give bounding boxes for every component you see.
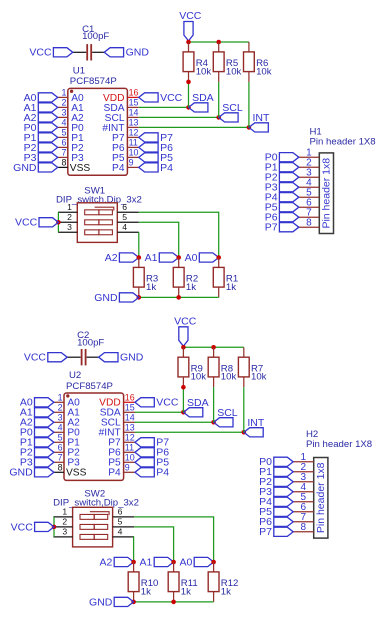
label SDA [183,397,208,417]
wire SDA net [139,106,189,108]
svg-text:15: 15 [129,98,139,108]
label P2 [20,447,54,459]
svg-text:10k: 10k [226,66,242,77]
switch SW2 DIP_switch,Dip_3x2 body [53,488,139,547]
pin 2 [58,212,77,222]
wire SCL net [135,421,214,423]
svg-text:2: 2 [62,517,67,527]
svg-text:7: 7 [58,453,63,463]
pin 15 (SDA) [104,98,139,114]
svg-text:13: 13 [125,423,135,433]
wire switch common [57,212,59,232]
pin 3 (A2) [54,413,80,429]
svg-text:VCC: VCC [179,10,202,22]
pin 10 (P5) [112,148,139,164]
label P4 [135,467,169,479]
wire INT net [139,126,249,128]
svg-text:10k: 10k [196,66,212,77]
svg-text:U2: U2 [69,370,81,381]
label A0 [185,252,219,264]
label SCL [219,102,243,122]
junction SDA [186,105,191,110]
svg-text:A2: A2 [100,556,113,568]
resistor R12 [208,562,238,602]
label P4 [139,162,173,174]
pin 7 (P3) [58,148,84,164]
pin 6 (P2) [54,443,80,459]
svg-text:10k: 10k [221,372,237,383]
svg-text:10k: 10k [191,372,207,383]
svg-text:1k: 1k [221,586,231,597]
label P6 [139,142,173,154]
pin 11 (P6) [112,138,139,154]
switch SW1 DIP_switch,Dip_3x2 body [56,185,142,242]
wire SCL net [139,116,219,118]
junction below first pullup [181,385,186,390]
wire GND rail [134,601,214,603]
svg-text:12: 12 [125,433,135,443]
svg-text:8: 8 [61,158,66,168]
label GND [99,352,144,364]
svg-text:VCC: VCC [15,217,38,229]
pin 1 [293,452,314,463]
junction switch VCC [56,220,61,225]
label VCC [139,92,183,104]
pin 16 (VDD) [99,393,135,409]
pin 1 [53,507,72,517]
label P0 [259,456,293,468]
pin 1 (A0) [54,393,80,409]
label P5 [265,202,299,214]
wire GND rail [139,296,219,298]
junction SCL [211,420,216,425]
label P3 [265,182,299,194]
svg-text:11: 11 [125,443,134,453]
label SCL [214,407,238,427]
svg-text:P4: P4 [156,467,169,479]
svg-text:VCC: VCC [24,352,47,364]
label VCC [11,521,54,533]
label P1 [20,437,54,449]
svg-text:5: 5 [118,517,123,527]
connector H2 pin header 1x8 body [306,429,372,538]
resistor R2 [173,258,198,298]
capacitor C1 [73,24,110,61]
label P6 [265,212,299,224]
resistor R9 [178,347,206,387]
junction VCC rail at R2 [216,40,221,45]
svg-text:16: 16 [125,393,135,403]
svg-text:VCC: VCC [156,397,179,409]
pin 13 (#INT) [99,423,135,439]
svg-text:4: 4 [61,118,66,128]
pin 3 [293,472,314,483]
junction A2 [137,255,142,260]
wire switch common [53,517,55,537]
label P1 [265,162,299,174]
svg-text:100pF: 100pF [77,338,104,349]
svg-text:3: 3 [62,527,67,537]
wire VCC rail [183,346,243,348]
label P7 [135,437,169,449]
svg-text:10: 10 [129,148,139,158]
svg-text:8: 8 [301,522,307,533]
svg-text:7: 7 [61,148,66,158]
label GND [104,47,149,59]
label VCC [29,47,72,59]
svg-text:U1: U1 [73,66,85,77]
wire INT net [135,431,244,433]
svg-text:5: 5 [122,212,127,222]
connector H1 pin header 1x8 body [310,126,376,233]
junction SDA [181,410,186,415]
pin 7 [293,512,314,523]
svg-text:P7: P7 [259,526,272,538]
label A0 [20,397,54,409]
pin 1 [58,202,77,212]
svg-text:15: 15 [125,403,135,413]
junction A1 [171,560,176,565]
svg-text:6: 6 [122,202,127,212]
svg-text:1k: 1k [181,586,191,597]
wire R5 to SCL [218,82,220,118]
pin 12 (P7) [112,128,139,144]
pin 9 (P4) [108,463,135,479]
svg-text:10: 10 [125,453,135,463]
wire switch pin5 to A1 [134,527,174,562]
svg-text:A0: A0 [180,556,193,568]
svg-text:GND: GND [94,292,118,304]
wire R4 to SDA [188,82,190,108]
svg-text:SDA: SDA [187,397,209,409]
label P3 [24,152,58,164]
svg-text:PCF8574P: PCF8574P [66,381,113,392]
wire switch pin5 to A1 [139,222,179,257]
label P6 [259,516,293,528]
svg-text:GND: GND [89,596,113,608]
svg-text:10k: 10k [256,66,272,77]
label GND [13,162,58,174]
label P7 [139,132,173,144]
label A2 [20,417,54,429]
pin 8 [299,218,320,229]
wire switch pin6 to A0 [134,517,214,562]
pin 9 (P4) [112,158,139,174]
svg-text:2: 2 [58,403,63,413]
svg-text:SCL: SCL [222,102,243,114]
label A1 [20,407,54,419]
svg-text:Pin header 1x8: Pin header 1x8 [315,462,327,533]
junction A2 [131,560,136,565]
svg-text:VCC: VCC [174,315,197,327]
svg-text:5: 5 [58,433,63,443]
svg-text:16: 16 [129,88,139,98]
junction INT [242,430,247,435]
svg-text:13: 13 [129,118,139,128]
label P2 [259,476,293,488]
label A0 [24,92,58,104]
label P5 [139,152,173,164]
label INT [244,417,265,437]
svg-text:10k: 10k [251,372,267,383]
pin 5 (P1) [58,128,84,144]
svg-text:9: 9 [129,158,134,168]
pin 6 [117,202,139,212]
label VCC [135,397,179,409]
svg-text:A1: A1 [145,252,158,264]
wire R7 to INT [243,387,245,432]
pin 2 (A1) [54,403,80,419]
pin 4 [299,178,320,189]
svg-text:SCL: SCL [217,407,238,419]
svg-text:Pin header 1X8: Pin header 1X8 [310,136,376,147]
pin 5 [299,188,320,199]
resistor R6 [244,42,272,82]
pin 12 (P7) [108,433,135,449]
svg-text:2: 2 [61,98,66,108]
wire R8 to SCL [213,387,215,422]
svg-text:14: 14 [125,413,135,423]
label P3 [259,486,293,498]
pin 2 [53,517,72,527]
label VCC [174,315,197,346]
svg-text:VCC: VCC [160,92,183,104]
pin 6 [293,502,314,513]
pin 2 [299,158,320,169]
svg-text:11: 11 [129,138,138,148]
label SDA [189,92,214,112]
junction GND rail mid [171,600,176,605]
label P0 [24,122,58,134]
pin 5 [117,212,139,222]
svg-text:P4: P4 [112,163,125,174]
svg-text:1k: 1k [141,586,151,597]
pin 6 [113,507,135,517]
wire switch pin4 to A2 [133,537,136,562]
svg-text:GND: GND [9,467,33,479]
pin 10 (P5) [108,453,135,469]
svg-text:GND: GND [126,47,150,59]
pin 7 [299,208,320,219]
pin 6 (P2) [58,138,84,154]
svg-text:PCF8574P: PCF8574P [70,76,117,87]
pin 1 [299,148,320,159]
wire R9 to SDA [182,387,184,412]
pin 6 [299,198,320,209]
svg-text:P4: P4 [108,468,121,479]
svg-text:4: 4 [58,423,63,433]
label VCC [15,217,58,229]
pin 14 (SCL) [105,108,139,124]
label P4 [265,192,299,204]
svg-text:3: 3 [58,413,63,423]
svg-text:VSS: VSS [70,163,91,174]
svg-text:1: 1 [62,507,67,517]
svg-text:Pin header 1X8: Pin header 1X8 [306,439,372,450]
pin 11 (P6) [108,443,135,459]
pin 3 [58,222,77,232]
svg-text:6: 6 [118,507,123,517]
svg-text:4: 4 [122,222,127,232]
pin 16 (VDD) [103,88,139,104]
wire switch pin4 to A2 [138,232,140,257]
wire VCC rail [189,41,249,43]
pin 2 [293,462,314,473]
label A1 [140,556,174,568]
resistor R4 [183,42,211,82]
svg-text:100pF: 100pF [82,31,109,42]
svg-text:1k: 1k [146,282,156,293]
label P7 [265,222,299,234]
label VCC [179,10,202,41]
label P0 [265,152,299,164]
capacitor C2 [67,330,104,366]
junction A1 [176,255,181,260]
pin 4 [113,527,135,537]
label P2 [265,172,299,184]
label A2 [100,556,134,568]
label GND [94,292,139,304]
pin 13 (#INT) [102,118,138,134]
label P1 [24,132,58,144]
pin 8 (VSS) [54,463,87,479]
svg-text:Pin header 1x8: Pin header 1x8 [321,158,333,229]
pin 8 [293,522,314,533]
junction GND rail mid [176,295,181,300]
label P7 [259,526,293,538]
resistor R7 [238,347,266,387]
svg-text:SDA: SDA [192,92,214,104]
wire SDA net [135,411,184,413]
pin 7 (P3) [54,453,80,469]
junction VCC rail at R1 [186,40,191,45]
svg-text:P7: P7 [265,222,278,234]
label P0 [20,427,54,439]
svg-text:VCC: VCC [29,47,52,59]
label A2 [24,112,58,124]
junction below first pullup [186,80,191,85]
junction INT [247,125,252,130]
svg-text:VCC: VCC [11,521,34,533]
label A0 [180,556,214,568]
resistor R8 [208,347,236,387]
svg-text:A2: A2 [105,252,118,264]
pin 3 (A2) [58,108,84,124]
label INT [249,112,270,132]
junction SCL [216,115,221,120]
label P5 [135,457,169,469]
pin 4 (P0) [58,118,84,134]
label A1 [145,252,179,264]
svg-text:A1: A1 [140,556,153,568]
IC U1 PCF8574P [68,66,128,176]
svg-text:1: 1 [58,393,63,403]
junction GND rail [131,600,136,605]
pin 4 (P0) [54,423,80,439]
resistor R5 [213,42,241,82]
pin 3 [53,527,72,537]
junction GND rail [137,295,142,300]
svg-text:3: 3 [61,108,66,118]
svg-text:1k: 1k [226,282,236,293]
pin 1 (A0) [58,88,84,104]
svg-text:6: 6 [61,138,66,148]
svg-text:8: 8 [306,218,312,229]
label P4 [259,496,293,508]
pin 4 [117,222,139,232]
IC U2 PCF8574P [64,370,124,480]
junction A0 [211,560,216,565]
svg-text:1: 1 [61,88,66,98]
pin 14 (SCL) [101,413,135,429]
svg-text:12: 12 [129,128,139,138]
label P2 [24,142,58,154]
resistor R1 [213,258,238,298]
label P5 [259,506,293,518]
svg-text:8: 8 [58,463,63,473]
label P1 [259,466,293,478]
label P6 [135,447,169,459]
svg-text:VSS: VSS [66,468,87,479]
svg-text:GND: GND [13,162,37,174]
svg-text:INT: INT [247,417,265,429]
pin 2 (A1) [58,98,84,114]
label P3 [20,457,54,469]
junction VCC rail at R2 [211,345,216,350]
resistor R11 [168,562,197,602]
resistor R10 [128,562,158,602]
pin 3 [299,168,320,179]
pin 4 [293,482,314,493]
label VCC [24,352,67,364]
pin 15 (SDA) [100,403,135,419]
svg-text:3: 3 [67,222,72,232]
svg-text:5: 5 [61,128,66,138]
wire switch pin6 to A0 [139,212,219,257]
svg-text:1k: 1k [186,282,196,293]
svg-text:INT: INT [253,112,271,124]
label A2 [105,252,139,264]
label GND [9,467,54,479]
svg-text:GND: GND [120,352,144,364]
junction switch VCC [52,525,57,530]
svg-text:2: 2 [67,212,72,222]
junction A0 [216,255,221,260]
pin 5 [293,492,314,503]
label A1 [24,102,58,114]
junction VCC rail at R1 [181,345,186,350]
wire R6 to INT [248,82,250,128]
svg-text:P4: P4 [160,162,173,174]
label GND [89,596,134,608]
svg-text:4: 4 [118,527,123,537]
svg-text:1: 1 [67,202,72,212]
pin 5 [113,517,135,527]
resistor R3 [133,258,158,298]
svg-text:6: 6 [58,443,63,453]
svg-text:14: 14 [129,108,139,118]
svg-text:A0: A0 [185,252,198,264]
pin 5 (P1) [54,433,80,449]
pin 8 (VSS) [58,158,91,174]
svg-text:9: 9 [125,463,130,473]
